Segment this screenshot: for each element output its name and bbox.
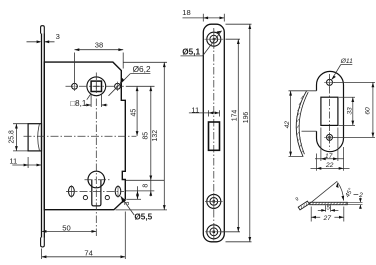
dimension 17 opening width [315,128,344,162]
label Ø5,5 with leader [121,196,153,222]
strike plate centerline [329,74,331,150]
strike plate outline [317,71,344,151]
dimension 50 backset [42,223,97,233]
svg-text:□8,1: □8,1 [70,99,87,108]
strike lip hatch [296,96,303,153]
dimension 196 [226,24,252,242]
horizontal centerline ovals [66,190,124,192]
extension line cylinder axis right [126,179,164,181]
dimension 42 lip height [284,91,292,157]
dimension 2 thickness [347,192,363,209]
strike lip tab front view [289,91,317,157]
strike lip bend arc inner [299,92,308,154]
dimension 25.8 latch height [8,124,27,151]
dimension 3 chamfer [124,186,139,205]
dimension 22 plate width [311,147,350,171]
svg-text:8: 8 [142,184,149,188]
strike top screw hole [324,77,335,87]
dimension 174 [222,39,241,232]
vertical centerline spindle/cylinder [95,73,97,237]
faceplate bottom cap [41,237,45,247]
svg-text:25.8: 25.8 [8,130,15,144]
dimension 74 overall [42,212,126,260]
dimension 45 [131,86,139,136]
dimension 11 latch protrusion [9,157,41,168]
dimension 38 [75,41,124,83]
svg-text:27: 27 [323,215,332,222]
spindle center cross [94,84,100,90]
label Ø11 with leader [332,58,353,79]
profile bar hatch [312,202,347,204]
latch opening [209,122,220,150]
svg-text:38: 38 [95,41,103,50]
dimension 11 latch opening [189,105,220,116]
dimension 3 faceplate thickness [27,32,60,43]
left oval ticks [67,185,76,197]
faceplate top cap [41,26,45,34]
dimension 132 [152,62,166,210]
svg-text:18: 18 [182,8,190,17]
extension line body bottom right [116,209,168,211]
svg-text:3: 3 [56,32,60,41]
angle leg line [310,181,337,203]
svg-text:196: 196 [243,112,250,124]
faceplate centerline [213,28,215,239]
extension line spindle axis right [126,85,155,87]
profile bent lip [298,201,309,210]
extension line body top right [123,61,167,63]
label square 8,1 with leader [70,94,107,109]
extension line chamfer corner right [126,198,141,200]
strike bottom screw hole [324,132,335,142]
svg-text:Ø5,5: Ø5,5 [134,213,152,222]
profile plate bar [310,202,347,204]
svg-text:174: 174 [231,110,238,122]
angle arc 45deg [338,182,344,200]
svg-text:33: 33 [347,107,354,115]
dimension 60 hole spacing [334,82,376,137]
right fixing hole Ø6,2 [115,83,121,89]
top screw hole Ø5,1 [205,30,224,49]
svg-text:Ø6,2: Ø6,2 [133,64,151,74]
dimension 8 right side [142,184,149,188]
lock body outline [44,62,125,210]
dimension 27 [311,207,344,223]
latch bevel curve [38,124,40,150]
dimension 85 [143,86,153,196]
svg-text:2: 2 [358,192,363,199]
euro cylinder circle [88,171,105,188]
horizontal centerline spindle row [66,85,124,87]
spindle square hole 8.1 [91,81,101,91]
dimension 18 [182,8,224,22]
svg-text:Ø5,1: Ø5,1 [182,47,200,56]
horizontal centerline cylinder [85,179,111,181]
faceplate side strip [42,34,45,238]
extension line ovals axis right [126,190,154,192]
svg-text:50: 50 [62,223,70,232]
left oval hole [69,186,75,196]
svg-text:42: 42 [284,121,291,129]
strike lip bend arc outer [296,91,306,157]
strike latch opening rect [321,97,338,125]
svg-text:17: 17 [325,153,333,160]
latch bolt side view [28,124,41,151]
right oval ticks [117,185,119,197]
bottom screw hole lower [205,223,223,240]
right hole vertical tick [117,82,119,91]
label Ø6,2 with leader [109,64,151,96]
label Ø5,1 with leader [181,31,222,57]
left hole vertical tick [74,82,76,91]
right oval hole Ø5,5 [115,186,121,196]
svg-text:45: 45 [131,109,138,117]
svg-text:85: 85 [143,132,150,140]
dimension 33 opening height [339,97,355,125]
faceplate front outline [203,24,224,242]
small circle left of cylinder [83,196,87,200]
svg-text:22: 22 [325,162,334,169]
svg-text:11: 11 [9,157,17,166]
dimension 5 [318,205,339,212]
svg-text:60: 60 [365,107,372,115]
spindle hub circle [87,77,106,96]
small circle right of cylinder [105,196,109,200]
euro cylinder rectangle [92,180,101,206]
svg-text:132: 132 [152,130,159,142]
horizontal centerline latch [24,135,137,137]
left fixing hole [72,83,78,89]
bottom screw hole upper [205,193,223,210]
svg-text:74: 74 [84,248,92,257]
